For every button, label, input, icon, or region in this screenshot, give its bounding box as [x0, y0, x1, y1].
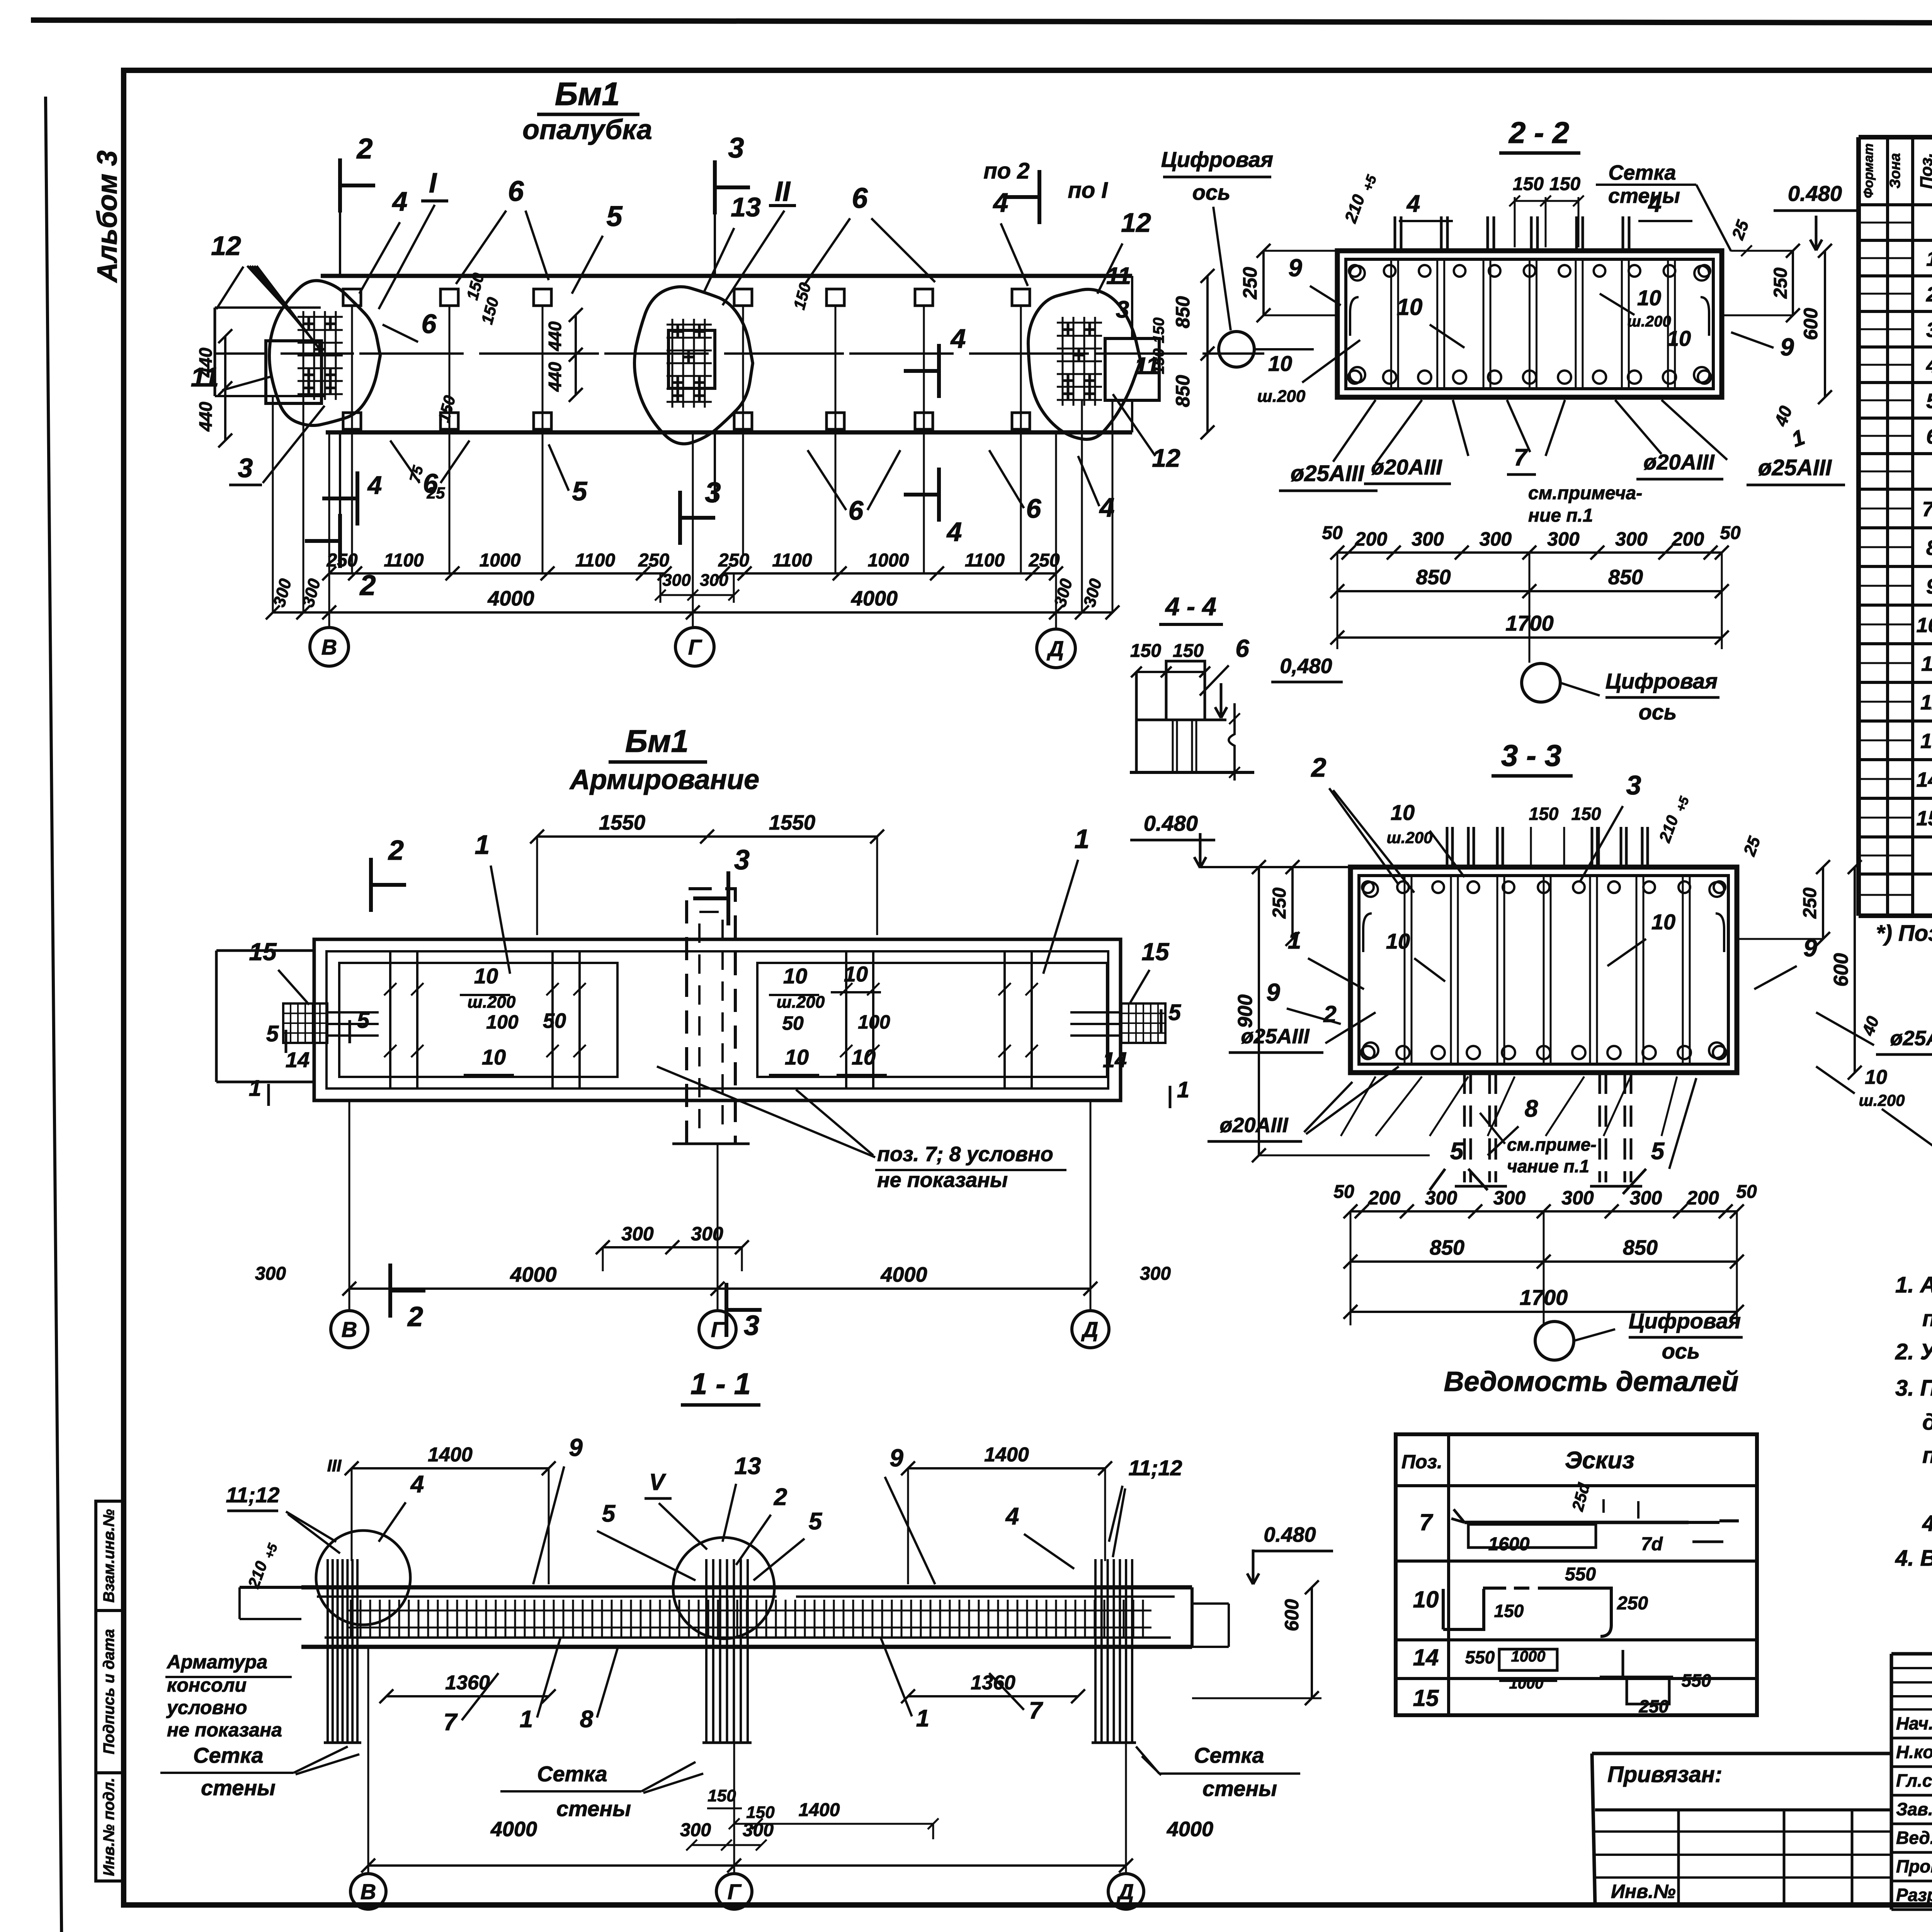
svg-text:ние п.1: ние п.1 — [1528, 505, 1593, 526]
svg-text:Армирование: Армирование — [569, 764, 759, 795]
svg-text:440: 440 — [545, 362, 565, 392]
svg-text:15*: 15* — [1916, 807, 1932, 830]
svg-text:1: 1 — [1926, 247, 1932, 270]
svg-text:Сетка: Сетка — [193, 1743, 264, 1767]
svg-text:0,480: 0,480 — [1280, 655, 1332, 678]
svg-text:11: 11 — [1921, 652, 1932, 675]
svg-text:10: 10 — [482, 1045, 506, 1069]
svg-text:11;12: 11;12 — [1128, 1456, 1182, 1480]
svg-text:Д: Д — [1117, 1879, 1134, 1904]
svg-text:1: 1 — [916, 1705, 929, 1732]
svg-text:1: 1 — [1177, 1077, 1189, 1102]
svg-text:40: 40 — [1770, 403, 1796, 429]
svg-text:150: 150 — [1494, 1601, 1524, 1621]
svg-text:50: 50 — [1322, 523, 1343, 543]
svg-text:7: 7 — [1029, 1697, 1043, 1724]
svg-text:4000: 4000 — [490, 1818, 537, 1841]
svg-text:50: 50 — [1736, 1182, 1757, 1202]
svg-text:550: 550 — [1682, 1670, 1711, 1690]
svg-text:3: 3 — [1926, 318, 1932, 342]
svg-text:3 - 3: 3 - 3 — [1501, 738, 1561, 772]
svg-text:9: 9 — [889, 1444, 903, 1472]
svg-text:ш.200: ш.200 — [1386, 828, 1432, 847]
svg-text:не показана: не показана — [167, 1719, 282, 1741]
svg-text:850: 850 — [1430, 1236, 1464, 1259]
svg-text:Альбом 3: Альбом 3 — [92, 150, 123, 283]
svg-text:ось: ось — [1192, 180, 1231, 204]
svg-text:В: В — [361, 1879, 376, 1904]
svg-text:0.480: 0.480 — [1788, 181, 1842, 206]
svg-text:10: 10 — [1391, 800, 1415, 825]
svg-text:стены: стены — [556, 1796, 631, 1821]
svg-text:Нач.отд.: Нач.отд. — [1896, 1713, 1932, 1733]
svg-text:9: 9 — [1288, 254, 1302, 282]
svg-text:Привязан:: Привязан: — [1607, 1762, 1722, 1787]
svg-text:200: 200 — [1368, 1187, 1401, 1209]
svg-text:14*: 14* — [1916, 768, 1932, 791]
svg-text:V: V — [649, 1469, 667, 1495]
svg-text:300: 300 — [1547, 528, 1580, 550]
svg-text:300: 300 — [1051, 577, 1076, 609]
svg-text:150: 150 — [1173, 641, 1204, 661]
svg-text:3: 3 — [705, 476, 721, 509]
svg-text:50: 50 — [1333, 1182, 1354, 1202]
svg-text:150: 150 — [1150, 318, 1167, 344]
svg-text:проволокой к пространственно: проволокой к пространственному каркасу К… — [1922, 1306, 1932, 1331]
svg-text:850: 850 — [1172, 375, 1194, 407]
svg-text:7d: 7d — [1641, 1534, 1663, 1554]
svg-text:Д: Д — [1081, 1317, 1098, 1342]
svg-text:50: 50 — [782, 1012, 804, 1034]
svg-text:300: 300 — [662, 571, 691, 590]
svg-text:250: 250 — [326, 550, 357, 571]
svg-text:2: 2 — [774, 1484, 787, 1510]
svg-text:1: 1 — [520, 1706, 533, 1733]
svg-text:5: 5 — [1450, 1138, 1464, 1165]
svg-text:1400: 1400 — [799, 1800, 840, 1820]
svg-text:13: 13 — [1920, 730, 1932, 753]
svg-text:10: 10 — [1386, 929, 1410, 953]
svg-text:1100: 1100 — [965, 550, 1005, 571]
svg-text:300: 300 — [1412, 528, 1444, 550]
svg-text:300: 300 — [1140, 1264, 1171, 1284]
svg-text:25: 25 — [1728, 218, 1753, 242]
svg-text:50: 50 — [1720, 523, 1741, 543]
svg-text:13: 13 — [735, 1453, 761, 1480]
svg-text:ø20АIII: ø20АIII — [1643, 450, 1715, 474]
svg-text:50: 50 — [543, 1009, 566, 1032]
svg-text:7: 7 — [444, 1709, 458, 1736]
svg-text:Инв.№: Инв.№ — [1611, 1881, 1676, 1902]
svg-text:6: 6 — [1926, 425, 1932, 448]
svg-text:4: 4 — [367, 471, 382, 499]
svg-text:Разраб.: Разраб. — [1896, 1885, 1932, 1905]
svg-text:150: 150 — [1549, 174, 1580, 194]
svg-text:I: I — [429, 168, 437, 199]
svg-text:8: 8 — [1525, 1095, 1538, 1122]
svg-text:4. Ведомость расхода стали: 4. Ведомость расхода стали см. на листе … — [1895, 1546, 1932, 1571]
svg-text:1600: 1600 — [1488, 1534, 1530, 1554]
svg-text:150: 150 — [1150, 349, 1167, 374]
svg-text:10: 10 — [1268, 351, 1292, 376]
svg-text:3: 3 — [744, 1310, 759, 1341]
svg-text:III: III — [327, 1456, 342, 1475]
svg-text:Сетка: Сетка — [1194, 1743, 1264, 1767]
svg-text:10: 10 — [844, 962, 868, 986]
svg-text:Формат: Формат — [1861, 143, 1876, 198]
svg-text:+5: +5 — [262, 1541, 281, 1561]
svg-text:Г: Г — [728, 1879, 742, 1904]
svg-text:1 - 1: 1 - 1 — [690, 1367, 751, 1401]
svg-text:Ведомость деталей: Ведомость деталей — [1444, 1366, 1739, 1397]
svg-text:*) Позиции 7;10;14;15 см. Ведо: *) Позиции 7;10;14;15 см. Ведомость дета… — [1876, 921, 1932, 946]
svg-text:440: 440 — [196, 401, 216, 432]
svg-text:550: 550 — [1465, 1647, 1495, 1667]
svg-text:принятой технологией изготов: принятой технологией изготовления. — [1922, 1443, 1932, 1468]
svg-text:консоли: консоли — [167, 1674, 247, 1696]
svg-text:0.480: 0.480 — [1264, 1523, 1316, 1546]
svg-text:3: 3 — [728, 132, 744, 164]
svg-text:15: 15 — [1141, 938, 1170, 966]
svg-text:12: 12 — [1920, 691, 1932, 714]
svg-text:600: 600 — [1830, 953, 1852, 987]
svg-text:II: II — [775, 176, 791, 207]
svg-text:4: 4 — [1648, 190, 1662, 217]
svg-text:Зона: Зона — [1887, 153, 1903, 189]
svg-text:15: 15 — [249, 938, 277, 966]
svg-text:ø25АIII: ø25АIII — [1241, 1025, 1310, 1048]
svg-text:850: 850 — [1608, 566, 1643, 589]
svg-text:ø25АIII: ø25АIII — [1291, 461, 1365, 486]
svg-text:В: В — [342, 1317, 357, 1342]
svg-text:12: 12 — [1121, 207, 1151, 238]
svg-text:1: 1 — [1788, 425, 1808, 452]
svg-text:4000: 4000 — [487, 587, 534, 610]
svg-text:1: 1 — [1288, 927, 1301, 954]
svg-text:150: 150 — [478, 295, 502, 326]
svg-text:ø25АIII: ø25АIII — [1758, 455, 1832, 480]
svg-text:6: 6 — [1235, 634, 1249, 662]
svg-text:3: 3 — [1116, 296, 1129, 323]
svg-text:5: 5 — [266, 1021, 279, 1046]
svg-text:Сетка: Сетка — [1608, 161, 1676, 184]
svg-text:5: 5 — [572, 476, 588, 506]
svg-text:300: 300 — [680, 1820, 711, 1840]
svg-text:150: 150 — [1130, 641, 1161, 661]
svg-text:не показаны: не показаны — [877, 1168, 1008, 1192]
svg-text:ш.200: ш.200 — [777, 993, 825, 1012]
svg-text:4: 4 — [410, 1471, 424, 1498]
svg-text:3: 3 — [238, 453, 253, 483]
svg-text:11;12: 11;12 — [226, 1483, 279, 1507]
svg-text:5: 5 — [1926, 389, 1932, 413]
svg-text:Бм1: Бм1 — [625, 724, 689, 759]
svg-text:5: 5 — [606, 200, 623, 232]
svg-text:1550: 1550 — [769, 811, 815, 834]
svg-text:200: 200 — [1686, 1187, 1719, 1209]
svg-text:600: 600 — [1800, 308, 1821, 340]
svg-text:1: 1 — [249, 1076, 261, 1101]
svg-text:100: 100 — [486, 1011, 519, 1033]
svg-text:Эскиз: Эскиз — [1565, 1447, 1634, 1474]
svg-text:2: 2 — [1311, 752, 1327, 782]
svg-text:Г: Г — [688, 635, 702, 659]
svg-text:10: 10 — [1413, 1587, 1439, 1612]
svg-text:+5: +5 — [1673, 794, 1692, 814]
svg-text:Цифровая: Цифровая — [1605, 669, 1718, 693]
svg-text:250: 250 — [638, 550, 669, 571]
svg-text:длина заготовки назначается: длина заготовки назначается в соответств… — [1922, 1410, 1932, 1435]
svg-text:3: 3 — [1626, 770, 1641, 800]
svg-text:210: 210 — [1341, 192, 1369, 226]
svg-text:1: 1 — [1075, 824, 1090, 854]
svg-text:ш.200: ш.200 — [1859, 1091, 1905, 1109]
svg-text:7: 7 — [1419, 1509, 1433, 1535]
svg-text:150: 150 — [1571, 804, 1601, 824]
svg-text:см.приме-: см.приме- — [1507, 1134, 1597, 1155]
svg-text:9: 9 — [1803, 934, 1817, 962]
svg-text:1100: 1100 — [384, 550, 424, 571]
svg-text:250: 250 — [1770, 267, 1791, 299]
svg-text:10: 10 — [1865, 1066, 1887, 1088]
svg-text:1000: 1000 — [868, 550, 909, 571]
svg-text:150: 150 — [1529, 804, 1559, 824]
svg-text:14: 14 — [286, 1048, 310, 1072]
svg-text:ось: ось — [1639, 700, 1677, 724]
svg-text:Зав.гр.: Зав.гр. — [1896, 1799, 1932, 1819]
svg-text:8: 8 — [580, 1706, 594, 1733]
svg-text:1. Арматуру поз. 7 и 8 привя: 1. Арматуру поз. 7 и 8 привязать вязальн… — [1895, 1272, 1932, 1298]
svg-text:ш.200: ш.200 — [468, 993, 516, 1012]
svg-text:5: 5 — [357, 1008, 370, 1033]
svg-text:Провер.: Провер. — [1896, 1856, 1932, 1876]
svg-text:4: 4 — [946, 517, 962, 547]
svg-text:250: 250 — [718, 550, 749, 571]
svg-text:2: 2 — [1323, 1001, 1336, 1027]
svg-text:1000: 1000 — [480, 550, 521, 571]
svg-text:2. Узлы I; II; III смотрите н: 2. Узлы I; II; III смотрите на листе 33;… — [1895, 1339, 1932, 1364]
svg-text:300: 300 — [1425, 1187, 1458, 1209]
svg-text:150: 150 — [707, 1786, 736, 1805]
svg-text:10: 10 — [785, 1045, 809, 1069]
svg-text:стены: стены — [1202, 1776, 1277, 1801]
svg-text:850: 850 — [1172, 296, 1194, 328]
svg-text:14: 14 — [1413, 1645, 1439, 1670]
svg-text:300: 300 — [621, 1223, 654, 1245]
svg-text:поз. 7; 8 условно: поз. 7; 8 условно — [877, 1143, 1053, 1166]
svg-text:1: 1 — [475, 830, 490, 860]
svg-text:40: 40 — [1859, 1014, 1883, 1038]
svg-text:Подпись и дата: Подпись и дата — [100, 1629, 117, 1754]
svg-text:300: 300 — [255, 1264, 286, 1284]
svg-text:850: 850 — [1416, 566, 1451, 589]
svg-text:4000: 4000 — [1167, 1818, 1213, 1841]
svg-text:6: 6 — [422, 309, 437, 339]
svg-text:чание п.1: чание п.1 — [1507, 1156, 1589, 1176]
svg-text:стены: стены — [1608, 184, 1680, 207]
svg-text:250: 250 — [1800, 888, 1820, 919]
svg-text:3: 3 — [734, 845, 750, 876]
svg-text:4000: 4000 — [851, 587, 898, 610]
svg-text:7: 7 — [1514, 444, 1528, 471]
svg-text:300: 300 — [700, 571, 728, 590]
svg-text:200: 200 — [1672, 528, 1704, 550]
svg-text:Цифровая: Цифровая — [1161, 147, 1273, 172]
svg-text:150: 150 — [434, 393, 459, 424]
svg-text:В: В — [321, 635, 337, 659]
svg-text:440: 440 — [545, 321, 565, 351]
svg-text:300: 300 — [1561, 1187, 1594, 1209]
svg-text:300: 300 — [1480, 528, 1512, 550]
svg-text:2 - 2: 2 - 2 — [1508, 116, 1569, 150]
svg-text:ø20АIII: ø20АIII — [1219, 1114, 1288, 1137]
svg-text:2: 2 — [356, 133, 372, 165]
svg-text:1100: 1100 — [575, 550, 616, 571]
svg-text:Г: Г — [711, 1317, 725, 1342]
svg-text:10: 10 — [1667, 326, 1691, 350]
svg-text:4: 4 — [1406, 190, 1420, 217]
svg-text:11: 11 — [1106, 263, 1131, 289]
svg-text:600: 600 — [1281, 1599, 1303, 1631]
svg-text:5: 5 — [602, 1500, 616, 1527]
svg-text:Гл.спец.: Гл.спец. — [1896, 1770, 1932, 1791]
svg-text:300: 300 — [1630, 1187, 1662, 1209]
svg-text:4: 4 — [1926, 354, 1932, 377]
svg-text:4000: 4000 — [510, 1263, 556, 1286]
svg-text:5: 5 — [1168, 1000, 1181, 1025]
svg-text:4000: 4000 — [880, 1263, 927, 1286]
svg-text:4 - 4: 4 - 4 — [1165, 592, 1216, 621]
svg-text:ось: ось — [1662, 1339, 1700, 1363]
svg-text:6: 6 — [508, 175, 524, 207]
svg-text:100: 100 — [858, 1011, 890, 1033]
svg-text:стены: стены — [201, 1776, 276, 1800]
svg-text:250: 250 — [1639, 1696, 1669, 1716]
svg-text:1100: 1100 — [772, 550, 812, 571]
svg-text:440: 440 — [196, 347, 216, 378]
svg-text:25: 25 — [1740, 834, 1764, 859]
svg-text:15: 15 — [1413, 1685, 1439, 1711]
svg-text:10: 10 — [852, 1045, 876, 1069]
svg-text:по 2: по 2 — [983, 158, 1029, 184]
svg-text:1550: 1550 — [599, 811, 645, 834]
svg-text:6: 6 — [852, 182, 868, 214]
svg-text:2: 2 — [1926, 283, 1932, 306]
svg-text:12: 12 — [211, 231, 241, 261]
svg-text:8: 8 — [1926, 536, 1932, 560]
svg-text:9: 9 — [1926, 575, 1932, 598]
svg-text:850: 850 — [1623, 1236, 1658, 1259]
svg-text:1000: 1000 — [1511, 1648, 1546, 1665]
svg-text:4: 4 — [1005, 1503, 1019, 1530]
svg-text:ш.200: ш.200 — [1257, 387, 1306, 406]
svg-text:5: 5 — [809, 1508, 823, 1535]
svg-text:300: 300 — [1615, 528, 1648, 550]
svg-text:900: 900 — [1234, 995, 1257, 1028]
svg-text:4: 4 — [950, 323, 966, 354]
svg-text:2: 2 — [407, 1301, 423, 1332]
svg-text:Инв.№ подл.: Инв.№ подл. — [100, 1778, 117, 1876]
svg-text:300: 300 — [1493, 1187, 1526, 1209]
svg-text:9: 9 — [1780, 333, 1794, 361]
svg-text:7*: 7* — [1922, 498, 1932, 521]
svg-text:6: 6 — [1026, 493, 1042, 524]
svg-text:Н.контр.: Н.контр. — [1896, 1742, 1932, 1762]
svg-text:ø25АIII: ø25АIII — [1890, 1027, 1932, 1050]
svg-text:13: 13 — [731, 192, 761, 222]
svg-text:210: 210 — [1655, 813, 1682, 845]
svg-text:Бм1: Бм1 — [555, 76, 620, 112]
svg-text:по I: по I — [1068, 178, 1108, 203]
svg-text:Сетка: Сетка — [537, 1762, 607, 1786]
svg-text:1000: 1000 — [1509, 1675, 1544, 1692]
svg-text:Поз.: Поз. — [1401, 1451, 1442, 1473]
svg-text:250: 250 — [1269, 888, 1290, 919]
svg-text:550: 550 — [1565, 1564, 1596, 1585]
svg-text:9: 9 — [1266, 978, 1280, 1006]
svg-text:150: 150 — [746, 1803, 775, 1822]
svg-text:см.примеча-: см.примеча- — [1528, 483, 1642, 503]
svg-text:12: 12 — [1152, 444, 1180, 472]
svg-text:условно: условно — [166, 1697, 247, 1718]
svg-text:250: 250 — [1617, 1593, 1648, 1614]
svg-text:150: 150 — [1513, 174, 1544, 194]
svg-text:10: 10 — [1651, 910, 1675, 934]
svg-text:0.480: 0.480 — [1144, 811, 1198, 835]
svg-text:300: 300 — [1080, 577, 1105, 609]
svg-text:ø20АIII: ø20АIII — [1371, 455, 1442, 479]
svg-text:4: 4 — [392, 186, 408, 216]
svg-text:1400: 1400 — [428, 1444, 473, 1466]
svg-text:+5: +5 — [1359, 173, 1380, 194]
svg-text:250: 250 — [1239, 267, 1261, 300]
svg-text:Арматура: Арматура — [166, 1651, 267, 1673]
svg-text:10: 10 — [1637, 286, 1661, 310]
svg-text:Вед.инж.: Вед.инж. — [1896, 1828, 1932, 1848]
svg-text:45 х 45 х 10.: 45 х 45 х 10. — [1922, 1511, 1932, 1536]
svg-text:14: 14 — [1103, 1048, 1127, 1072]
svg-text:10*: 10* — [1916, 614, 1932, 637]
svg-text:10: 10 — [1397, 294, 1423, 320]
svg-text:6: 6 — [849, 495, 864, 526]
svg-text:10: 10 — [474, 964, 498, 988]
svg-text:Д: Д — [1047, 636, 1064, 661]
svg-text:3. При устройстве высаженных: 3. При устройстве высаженных головок в д… — [1895, 1376, 1932, 1401]
svg-text:1360: 1360 — [445, 1672, 490, 1694]
svg-text:200: 200 — [1355, 528, 1388, 550]
svg-text:5: 5 — [1651, 1138, 1665, 1165]
svg-text:Поз.: Поз. — [1917, 153, 1932, 189]
svg-text:1400: 1400 — [984, 1444, 1029, 1466]
svg-text:опалубка: опалубка — [522, 114, 652, 145]
svg-text:150: 150 — [790, 281, 815, 311]
svg-text:25: 25 — [427, 484, 445, 502]
svg-text:10: 10 — [783, 964, 807, 988]
svg-text:1360: 1360 — [971, 1672, 1015, 1694]
svg-text:Цифровая: Цифровая — [1629, 1309, 1741, 1333]
svg-text:4: 4 — [993, 187, 1009, 218]
svg-text:Взам.инв.№: Взам.инв.№ — [100, 1509, 117, 1602]
svg-text:300: 300 — [743, 1820, 774, 1840]
svg-text:2: 2 — [388, 835, 404, 866]
svg-text:9: 9 — [569, 1434, 583, 1461]
